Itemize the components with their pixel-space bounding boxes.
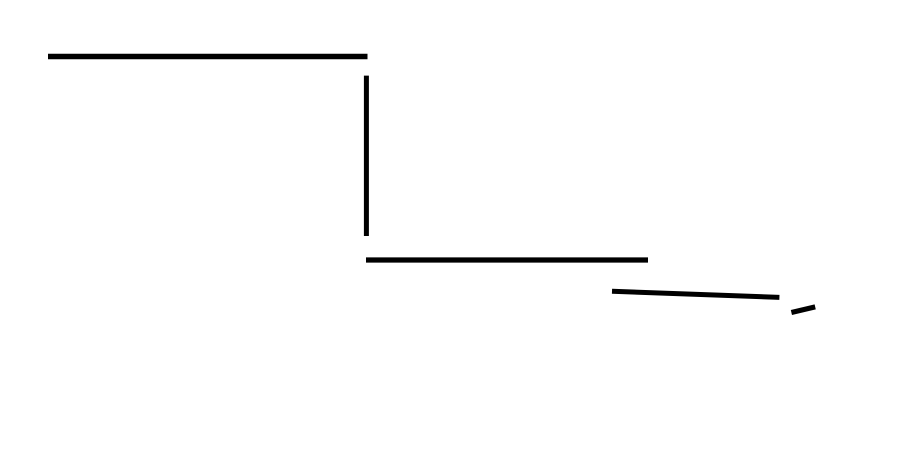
wire segment 5 (short dash) — [791, 307, 815, 313]
wire segment 2 (vertical) — [364, 76, 369, 236]
wire segment 3 (middle horizontal) — [366, 257, 648, 262]
wire segment 4 (slanted) — [612, 291, 779, 297]
wire segment 1 (top horizontal) — [48, 54, 368, 60]
